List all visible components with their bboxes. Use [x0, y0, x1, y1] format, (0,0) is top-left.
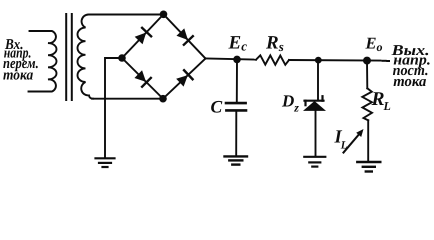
- diode D3 (lower left bridge arm): [122, 58, 163, 99]
- wire node to zener: [317, 60, 319, 100]
- ground (under RL): [357, 162, 380, 172]
- svg-text:тока: тока: [393, 74, 426, 90]
- wire zener to ground: [315, 111, 317, 156]
- node: bridge bottom junction: [159, 95, 167, 103]
- resistor Rs: [256, 55, 289, 65]
- label IL: [334, 128, 348, 152]
- transformer core: [66, 14, 72, 100]
- transformer secondary winding: [78, 15, 164, 99]
- wire RL to ground: [367, 120, 369, 161]
- wire Ec to capacitor: [236, 59, 238, 101]
- svg-text:C: C: [211, 96, 223, 116]
- node (Dz branch): [315, 57, 322, 64]
- svg-text:тока: тока: [3, 67, 34, 83]
- wire secondary bottom to bridge bottom node: [92, 98, 163, 100]
- diode D4 (lower right bridge arm): [163, 59, 206, 99]
- node: bridge top junction: [160, 11, 168, 19]
- svg-text:Rs: Rs: [265, 32, 284, 54]
- diode D1 (upper left bridge arm): [122, 14, 164, 58]
- output wire dashes: [383, 60, 390, 62]
- ground (under C): [225, 156, 248, 164]
- svg-text:Dz: Dz: [281, 91, 299, 114]
- node: bridge left junction: [118, 54, 126, 62]
- svg-text:IL: IL: [334, 128, 348, 152]
- wire Rs to output: [289, 59, 381, 62]
- node Ec: [233, 56, 241, 64]
- zener diode Dz: [303, 96, 326, 111]
- ground (main, under transformer): [96, 158, 115, 167]
- label Dz: [281, 91, 299, 114]
- resistor RL: [362, 88, 372, 120]
- diode D2 (upper right bridge arm): [164, 14, 206, 58]
- wire Eo to RL: [366, 61, 368, 89]
- DC output label: [390, 43, 430, 90]
- ground (under Dz): [304, 157, 325, 167]
- AC input label: [3, 37, 39, 83]
- node Eo: [363, 57, 371, 65]
- current arrow IL: [344, 129, 364, 153]
- label Ec: [228, 32, 248, 53]
- wire bridge output to Rs: [206, 59, 257, 60]
- wire capacitor to ground: [235, 112, 237, 156]
- wire bridge left node to ground: [105, 58, 122, 158]
- svg-text:Ec: Ec: [228, 32, 248, 53]
- svg-text:Eo: Eo: [365, 34, 383, 54]
- label RL: [371, 89, 391, 113]
- label Eo: [365, 34, 383, 54]
- label Rs: [265, 32, 284, 54]
- label C: [211, 96, 223, 116]
- transformer T1 primary winding: [29, 31, 57, 92]
- svg-text:RL: RL: [371, 89, 391, 113]
- capacitor C: [226, 103, 246, 110]
